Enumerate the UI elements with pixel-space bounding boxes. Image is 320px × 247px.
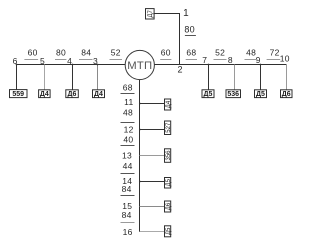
span underline 80 (1-2) [185, 35, 196, 37]
span underline 60 [24, 59, 38, 61]
load box D4 at node 3 [93, 90, 105, 98]
chain underline 48 [121, 122, 135, 124]
svg-text:13: 13 [122, 151, 132, 161]
svg-text:Д5: Д5 [256, 91, 265, 98]
svg-text:60: 60 [28, 48, 38, 58]
wire stub node 14 [140, 181, 165, 183]
svg-text:559: 559 [12, 91, 24, 98]
node 14 junction dot [139, 181, 141, 183]
wire stub node 13 [140, 155, 165, 157]
wire drop node 9 [260, 65, 262, 90]
svg-text:Д4: Д4 [40, 91, 49, 98]
span underline 48 [245, 59, 258, 61]
svg-text:536: 536 [227, 91, 239, 98]
svg-text:80: 80 [56, 48, 66, 58]
svg-text:52: 52 [111, 48, 121, 58]
chain underline 68 [121, 93, 135, 95]
load box D7 at node 1 [146, 9, 155, 19]
svg-text:80: 80 [184, 25, 195, 35]
span underline 72 [267, 59, 281, 61]
wire drop node 8 [234, 65, 236, 91]
chain underline 84 [121, 195, 135, 197]
svg-text:356: 356 [166, 150, 172, 161]
span underline 80 [55, 59, 66, 61]
svg-text:12: 12 [124, 125, 134, 135]
node 3 junction dot [97, 64, 99, 66]
svg-text:Д4: Д4 [94, 91, 103, 98]
load box D4 at node 11 [165, 99, 172, 110]
load box 527 at node 12 [165, 121, 172, 135]
node 6 junction dot [16, 64, 18, 66]
svg-text:6: 6 [13, 56, 18, 66]
svg-text:52: 52 [215, 48, 225, 58]
svg-text:Д6: Д6 [166, 202, 172, 210]
svg-text:16: 16 [123, 227, 133, 237]
wire branch node1 vertical to node2 [179, 14, 181, 65]
chain underline 84 second [121, 222, 135, 224]
load box D6 at node 4 [66, 90, 79, 98]
svg-text:72: 72 [270, 48, 280, 58]
span underline 52 right [214, 59, 227, 61]
node 12 junction dot [139, 129, 141, 131]
load box D5 at node 9 [255, 90, 267, 98]
svg-text:11: 11 [124, 97, 133, 107]
svg-text:Д5: Д5 [204, 91, 213, 98]
svg-text:Д5: Д5 [166, 227, 172, 235]
wire vertical trunk below MTP [139, 80, 141, 232]
transformer MTP circle [125, 50, 154, 79]
svg-text:527: 527 [166, 122, 172, 133]
wire branch node1 horizontal [154, 13, 180, 15]
svg-text:40: 40 [123, 134, 133, 144]
span underline 60 right [160, 59, 171, 61]
svg-text:Д7: Д7 [148, 9, 154, 17]
wire drop node 6 [16, 65, 18, 90]
load box D5 at node 14 [165, 178, 172, 189]
wire drop node 4 [72, 65, 74, 90]
load box 536 at node 8 [226, 90, 241, 98]
wire stub node 12 [140, 129, 165, 131]
load box D5 at node 16 [165, 226, 172, 237]
svg-text:Д6: Д6 [68, 91, 77, 98]
wire drop node 10 [286, 65, 288, 91]
svg-text:Д6: Д6 [282, 91, 291, 98]
svg-text:3: 3 [93, 56, 98, 66]
node 4 junction dot [72, 64, 74, 66]
svg-text:5: 5 [40, 56, 45, 66]
wire main feeder right [154, 64, 286, 66]
svg-text:84: 84 [122, 184, 132, 194]
svg-text:1: 1 [183, 8, 189, 19]
svg-text:Д5: Д5 [166, 178, 172, 186]
node 7 junction dot [208, 64, 210, 66]
svg-text:4: 4 [67, 56, 72, 66]
wire stub node 16 [140, 231, 165, 233]
chain underline 44 [121, 173, 135, 175]
load box 559 at node 6 [10, 90, 28, 98]
svg-text:68: 68 [123, 83, 133, 93]
load box D6 at node 15 [165, 201, 172, 212]
wire drop node 3 [97, 65, 99, 91]
wire drop node 7 [208, 65, 210, 90]
load box D6 at node 10 [281, 90, 293, 98]
svg-text:84: 84 [81, 48, 91, 58]
wire main feeder left [17, 64, 126, 66]
svg-text:44: 44 [123, 161, 133, 171]
svg-text:8: 8 [228, 55, 233, 65]
wire stub node 11 [140, 103, 165, 105]
span underline 84 [79, 59, 93, 61]
svg-text:60: 60 [161, 48, 171, 58]
svg-text:10: 10 [280, 54, 290, 64]
svg-text:2: 2 [177, 65, 182, 75]
svg-text:МТП: МТП [127, 60, 152, 72]
load box D5 at node 7 [202, 90, 214, 98]
svg-text:68: 68 [186, 48, 196, 58]
span underline 52 [110, 59, 123, 61]
chain underline 40 [121, 145, 135, 147]
svg-text:Д4: Д4 [166, 100, 172, 108]
wire drop node 5 [44, 65, 46, 91]
svg-text:84: 84 [122, 210, 132, 220]
node 9 junction dot [260, 64, 262, 66]
svg-text:7: 7 [202, 55, 207, 65]
wire stub node 15 [140, 206, 165, 208]
svg-text:48: 48 [123, 108, 133, 118]
load box D4 at node 5 [39, 90, 51, 98]
span underline 68 [186, 59, 197, 61]
load box 356 at node 13 [165, 149, 172, 163]
node 11 junction dot [139, 103, 141, 105]
